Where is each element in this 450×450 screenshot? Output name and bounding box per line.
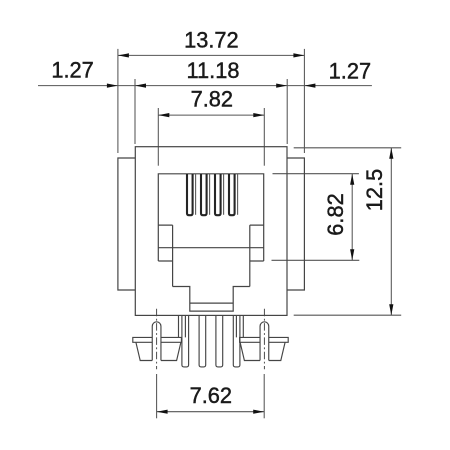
- ext line 11.18 right: [286, 79, 288, 144]
- left post collar right segment: [161, 337, 181, 342]
- arrow 6.82 bottom: [350, 249, 354, 260]
- ext line 7.82 right: [263, 108, 265, 166]
- ext line 7.62 right: [263, 374, 265, 418]
- pin 4 long: [233, 315, 240, 367]
- right post collar left segment: [240, 337, 260, 342]
- right mounting flange: [287, 158, 304, 290]
- ext line 11.18 left: [134, 79, 136, 144]
- svg-text:1.27: 1.27: [329, 59, 371, 84]
- arrow 11.18 right: [276, 84, 287, 88]
- left mounting flange: [118, 158, 135, 290]
- centerline left post: [156, 309, 158, 370]
- contact slot 2: [201, 174, 207, 215]
- right post neck: [260, 322, 269, 361]
- ext line 7.62 left: [156, 374, 158, 418]
- lower staircase and tab: [173, 287, 250, 312]
- dim line 12.5: [390, 148, 392, 315]
- opening shelf line: [158, 247, 263, 249]
- svg-text:7.82: 7.82: [191, 86, 233, 111]
- left post right wing: [161, 342, 181, 360]
- right post left wing: [240, 342, 260, 360]
- ext line 12.5 bottom: [294, 314, 402, 316]
- left post left wing: [136, 342, 152, 360]
- pin 2 long: [199, 315, 206, 367]
- dim line 7.82: [158, 114, 264, 116]
- dim line 7.62: [157, 411, 265, 413]
- short pin lines right: [236, 315, 243, 337]
- ext line 12.5 top: [294, 147, 402, 149]
- left post neck: [152, 322, 161, 361]
- arrow 6.82 top: [350, 174, 354, 185]
- centerline right post: [263, 309, 265, 370]
- ext line 13.72 left: [117, 49, 119, 153]
- arrow 13.72 right: [293, 53, 304, 57]
- arrow 1.27 right: [304, 84, 315, 88]
- dim/leader line 11.18 and 1.27: [38, 85, 372, 87]
- arrow 7.82 right: [253, 113, 264, 117]
- arrow 7.82 left: [158, 113, 169, 117]
- ext line 6.82 top: [273, 173, 359, 175]
- slot echo line 4: [237, 174, 239, 215]
- slot echo line 3: [223, 174, 225, 215]
- right post collar right segment: [269, 337, 288, 342]
- arrow 12.5 top: [389, 148, 393, 159]
- short pin lines left: [179, 315, 186, 337]
- ext line 7.82 left: [157, 108, 159, 166]
- contact slot 3: [215, 174, 221, 215]
- arrow 7.62 left: [157, 410, 168, 414]
- connector body outline: [135, 147, 287, 316]
- slot echo line 1: [195, 174, 197, 215]
- slot echo line 2: [209, 174, 211, 215]
- tab top line: [190, 302, 233, 304]
- jack opening outline: [158, 174, 263, 261]
- right post right wing: [269, 342, 285, 360]
- arrow 1.27 left: [107, 84, 118, 88]
- svg-text:13.72: 13.72: [184, 28, 239, 53]
- left latch notch: [158, 225, 172, 286]
- arrow 13.72 left: [118, 53, 129, 57]
- svg-text:1.27: 1.27: [51, 58, 93, 83]
- left post collar left segment: [133, 337, 152, 342]
- arrow 12.5 bottom: [389, 304, 393, 315]
- svg-text:6.82: 6.82: [323, 193, 348, 235]
- contact slot 4: [229, 174, 235, 215]
- dim line 6.82: [351, 174, 353, 261]
- dim line 13.72: [118, 54, 305, 56]
- ext line 6.82 bottom: [272, 259, 360, 261]
- contact slot 1: [187, 174, 193, 215]
- svg-text:12.5: 12.5: [362, 169, 387, 211]
- right latch notch: [250, 225, 264, 286]
- svg-text:7.62: 7.62: [190, 383, 232, 408]
- pin 1 long: [182, 315, 189, 367]
- arrow 7.62 right: [253, 410, 264, 414]
- svg-text:11.18: 11.18: [187, 58, 240, 83]
- pin 3 long: [216, 315, 223, 367]
- arrow 11.18 left: [135, 84, 146, 88]
- ext line 13.72 right: [303, 49, 305, 153]
